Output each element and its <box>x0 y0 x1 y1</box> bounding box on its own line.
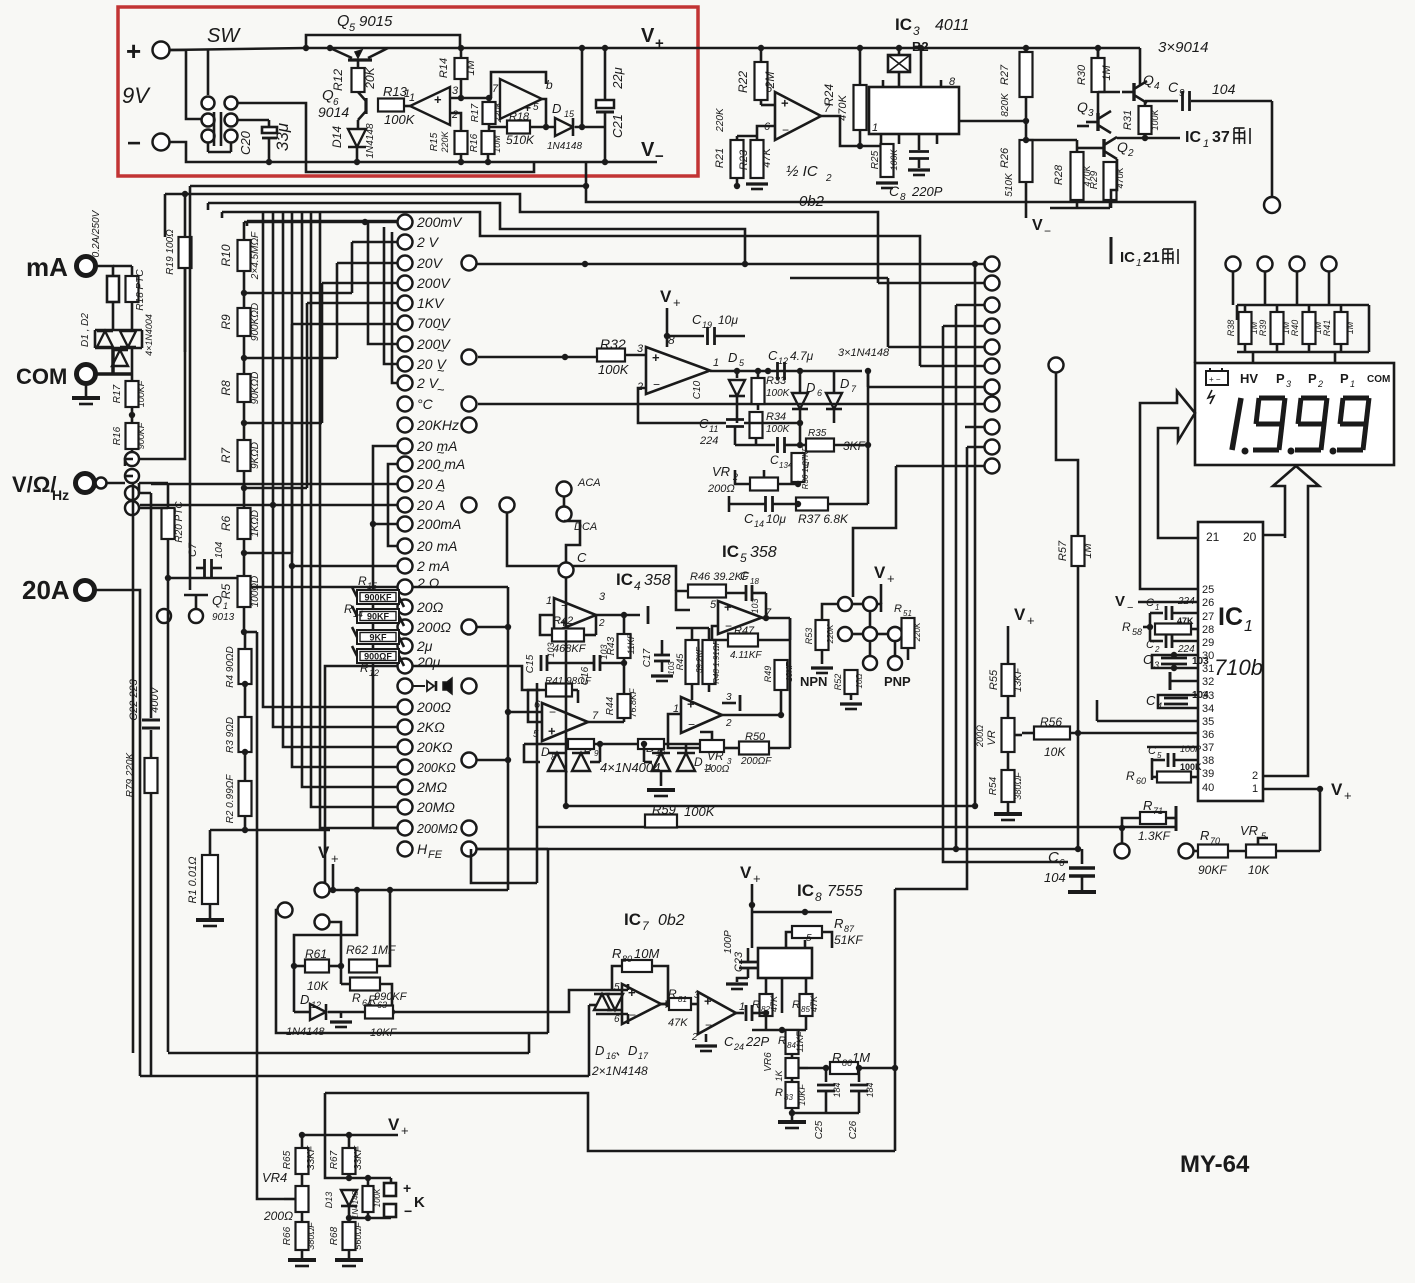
svg-text:380ΩF: 380ΩF <box>1013 772 1023 800</box>
svg-text:V: V <box>740 863 752 882</box>
svg-text:+: + <box>687 697 695 712</box>
svg-text:47K: 47K <box>809 995 819 1012</box>
svg-text:R: R <box>344 602 353 616</box>
svg-text:10KF: 10KF <box>370 1027 398 1039</box>
svg-text:11KF: 11KF <box>795 1031 805 1052</box>
svg-text:20MΩ: 20MΩ <box>416 799 455 815</box>
svg-text:R1 0.01Ω: R1 0.01Ω <box>187 857 199 904</box>
svg-text:9: 9 <box>1179 88 1185 99</box>
svg-text:R32: R32 <box>600 336 626 352</box>
svg-text:220K: 220K <box>440 130 450 153</box>
svg-text:58: 58 <box>1132 627 1142 637</box>
svg-text:11: 11 <box>709 424 718 434</box>
svg-text:R15: R15 <box>429 132 440 151</box>
svg-text:20 A: 20 A <box>416 497 445 513</box>
svg-text:3×9014: 3×9014 <box>1158 39 1208 56</box>
svg-text:IC: IC <box>895 15 912 34</box>
svg-text:D: D <box>541 745 550 759</box>
svg-text:510K: 510K <box>1004 172 1015 197</box>
svg-text:R16: R16 <box>469 133 480 152</box>
svg-text:83: 83 <box>784 1093 793 1102</box>
svg-text:C20: C20 <box>238 130 253 155</box>
svg-text:IC: IC <box>1120 249 1135 266</box>
svg-text:200ΩF: 200ΩF <box>740 756 772 767</box>
svg-text:220K: 220K <box>826 624 835 644</box>
svg-text:R14: R14 <box>438 58 450 78</box>
svg-text:2: 2 <box>1317 379 1323 389</box>
svg-text:224: 224 <box>1177 596 1195 607</box>
svg-text:32: 32 <box>1202 676 1214 688</box>
svg-text:9KF: 9KF <box>369 633 387 643</box>
svg-text:VR4: VR4 <box>262 1170 287 1185</box>
svg-text:−: − <box>1127 602 1133 614</box>
svg-text:V: V <box>874 563 886 582</box>
svg-text:200Ω: 200Ω <box>263 1209 293 1223</box>
svg-text:~: ~ <box>437 322 445 337</box>
svg-text:R41 98ΩF: R41 98ΩF <box>545 676 592 687</box>
svg-text:51: 51 <box>903 609 912 618</box>
svg-text:IC: IC <box>1218 603 1243 631</box>
svg-text:200Ω: 200Ω <box>704 764 730 775</box>
svg-text:−: − <box>404 1203 412 1219</box>
svg-text:380ΩF: 380ΩF <box>306 1222 316 1250</box>
svg-text:37: 37 <box>1202 742 1214 754</box>
svg-text:R42: R42 <box>553 615 573 627</box>
svg-text:+: + <box>548 724 556 739</box>
svg-text:R41: R41 <box>1322 320 1332 337</box>
svg-text:8: 8 <box>949 76 956 88</box>
svg-text:35: 35 <box>1202 716 1214 728</box>
svg-text:V/Ω/: V/Ω/ <box>12 472 57 497</box>
svg-text:R48 1.91ΩF: R48 1.91ΩF <box>712 639 721 684</box>
svg-text:224: 224 <box>1177 644 1195 655</box>
svg-text:1KV: 1KV <box>417 295 445 311</box>
svg-text:2: 2 <box>598 618 605 629</box>
svg-text:103: 103 <box>667 661 676 675</box>
svg-text:2: 2 <box>1127 148 1134 159</box>
svg-text:R: R <box>1122 620 1131 634</box>
svg-text:2MΩ: 2MΩ <box>416 779 447 795</box>
svg-text:~: ~ <box>437 363 445 378</box>
svg-text:1M: 1M <box>1345 321 1355 334</box>
svg-text:−: − <box>653 377 660 391</box>
svg-text:200Ω: 200Ω <box>975 725 985 748</box>
svg-text:2μ: 2μ <box>416 638 433 654</box>
svg-text:H: H <box>417 841 428 857</box>
svg-text:R30: R30 <box>1076 64 1088 85</box>
svg-text:184: 184 <box>832 1082 842 1097</box>
svg-text:V: V <box>1115 593 1125 610</box>
svg-text:20A: 20A <box>22 575 70 605</box>
svg-text:200KΩ: 200KΩ <box>416 761 456 775</box>
svg-text:19: 19 <box>702 320 712 330</box>
svg-text:D: D <box>806 380 815 395</box>
svg-text:2×4.5MΩF: 2×4.5MΩF <box>250 231 261 280</box>
svg-text:C: C <box>1143 652 1153 667</box>
svg-text:710b: 710b <box>1214 655 1263 680</box>
svg-text:R27: R27 <box>999 64 1011 85</box>
svg-text:R: R <box>832 1050 841 1065</box>
svg-text:HV: HV <box>1240 371 1258 386</box>
svg-text:39: 39 <box>1202 768 1214 780</box>
svg-text:D: D <box>728 350 737 365</box>
svg-text:+: + <box>1027 613 1035 628</box>
svg-text:10μ: 10μ <box>718 313 738 327</box>
svg-text:22P: 22P <box>745 1034 769 1049</box>
svg-text:C: C <box>1146 693 1156 708</box>
svg-text:VR: VR <box>986 730 998 745</box>
svg-text:25: 25 <box>1202 584 1214 596</box>
svg-text:1N4148: 1N4148 <box>286 1026 325 1038</box>
svg-text:IC: IC <box>722 542 739 561</box>
svg-text:4011: 4011 <box>935 17 969 34</box>
svg-text:3: 3 <box>726 692 732 703</box>
svg-text:468KF: 468KF <box>553 643 587 655</box>
svg-text:R28: R28 <box>1053 164 1065 185</box>
svg-text:470K: 470K <box>837 94 849 120</box>
svg-text:47K: 47K <box>1177 616 1194 626</box>
svg-text:2: 2 <box>1252 770 1258 782</box>
svg-text:4: 4 <box>1154 81 1160 92</box>
svg-text:R5: R5 <box>219 584 233 600</box>
svg-text:9013: 9013 <box>212 612 235 623</box>
svg-text:+: + <box>655 35 664 52</box>
svg-text:1M: 1M <box>465 60 477 76</box>
svg-text:220P: 220P <box>911 184 943 199</box>
svg-text:1: 1 <box>1155 603 1159 612</box>
svg-text:104: 104 <box>1212 81 1236 97</box>
svg-text:1M: 1M <box>852 1050 870 1065</box>
svg-text:1.3KF: 1.3KF <box>1138 829 1171 843</box>
svg-text:R44: R44 <box>605 696 616 715</box>
svg-text:3KF: 3KF <box>843 439 866 453</box>
svg-text:22μ: 22μ <box>610 67 625 90</box>
svg-text:+: + <box>403 1180 411 1196</box>
svg-text:3: 3 <box>452 85 459 97</box>
svg-text:、D: 、D <box>615 1043 637 1058</box>
svg-text:29: 29 <box>1202 637 1214 649</box>
svg-text:2 Ω: 2 Ω <box>416 575 440 591</box>
svg-text:0.2A/250V: 0.2A/250V <box>91 209 102 257</box>
svg-text:+: + <box>434 92 442 107</box>
svg-text:R65: R65 <box>282 1150 293 1169</box>
svg-text:1N4148: 1N4148 <box>547 141 582 152</box>
svg-text:20: 20 <box>1243 530 1257 544</box>
svg-text:R61: R61 <box>305 947 327 961</box>
svg-text:VR6: VR6 <box>763 1052 774 1072</box>
svg-text:15: 15 <box>367 581 378 591</box>
svg-text:R18: R18 <box>509 111 530 123</box>
svg-text:C: C <box>724 1034 734 1049</box>
svg-text:26: 26 <box>1202 597 1214 609</box>
svg-text:200MΩ: 200MΩ <box>416 822 458 836</box>
svg-text:10Ω: 10Ω <box>855 674 864 689</box>
svg-text:R23: R23 <box>738 149 750 170</box>
svg-text:IC: IC <box>624 910 641 929</box>
svg-text:3: 3 <box>1286 379 1291 389</box>
svg-text:1: 1 <box>872 122 878 134</box>
svg-text:14: 14 <box>353 609 363 619</box>
svg-text:28: 28 <box>1202 624 1214 636</box>
svg-text:R62 1MF: R62 1MF <box>346 943 396 957</box>
svg-text:−: − <box>725 619 732 633</box>
svg-text:104: 104 <box>214 541 225 558</box>
svg-text:R79 220K: R79 220K <box>125 751 136 797</box>
svg-text:12: 12 <box>369 668 379 678</box>
svg-text:37: 37 <box>1212 129 1230 146</box>
svg-text:5: 5 <box>766 83 773 95</box>
svg-text:C: C <box>1146 597 1154 609</box>
svg-text:20KHz: 20KHz <box>416 417 459 433</box>
svg-text:560ΩF: 560ΩF <box>353 1222 363 1250</box>
svg-text:R35: R35 <box>808 428 827 439</box>
svg-text:R24: R24 <box>822 84 836 106</box>
svg-text:+: + <box>1344 788 1352 803</box>
svg-text:R45: R45 <box>675 653 685 671</box>
svg-text:90KΩD: 90KΩD <box>250 372 261 405</box>
svg-text:100K: 100K <box>1180 762 1202 772</box>
svg-text:90KF: 90KF <box>1198 863 1227 877</box>
svg-text:103: 103 <box>546 642 556 657</box>
svg-text:70: 70 <box>1210 836 1220 846</box>
svg-text:R: R <box>778 1035 786 1047</box>
svg-text:Q: Q <box>337 13 349 30</box>
svg-text:R52: R52 <box>833 674 843 691</box>
svg-text:21: 21 <box>1206 530 1220 544</box>
svg-text:0b2: 0b2 <box>658 912 685 929</box>
svg-text:20 mA: 20 mA <box>416 538 457 554</box>
svg-text:C: C <box>740 569 749 583</box>
svg-text:~: ~ <box>437 382 445 397</box>
svg-text:5: 5 <box>806 933 812 944</box>
svg-text:9014: 9014 <box>318 104 349 120</box>
svg-text:100K: 100K <box>766 424 791 435</box>
svg-text:5: 5 <box>1157 751 1162 760</box>
svg-text:51KF: 51KF <box>834 933 863 947</box>
svg-text:R19 100Ω: R19 100Ω <box>165 229 176 275</box>
svg-text:2 mA: 2 mA <box>416 558 450 574</box>
svg-text:+: + <box>724 600 732 615</box>
svg-text:1M: 1M <box>1101 65 1113 81</box>
svg-text:900KΩD: 900KΩD <box>250 303 261 341</box>
svg-text:R4 90ΩD: R4 90ΩD <box>225 646 236 688</box>
svg-text:4.7μ: 4.7μ <box>790 349 814 363</box>
svg-text:9015: 9015 <box>359 13 393 30</box>
svg-text:C: C <box>1146 639 1154 651</box>
svg-text:200Ω: 200Ω <box>416 619 451 635</box>
svg-text:3: 3 <box>913 24 920 38</box>
svg-text:5: 5 <box>740 551 747 565</box>
svg-text:200mV: 200mV <box>416 214 463 230</box>
svg-text:200Ω: 200Ω <box>707 483 735 495</box>
svg-text:+: + <box>126 36 141 66</box>
svg-text:200Ω: 200Ω <box>416 699 451 715</box>
svg-text:V: V <box>388 1115 400 1134</box>
svg-text:+ −: + − <box>1209 375 1221 384</box>
svg-text:R17: R17 <box>470 103 481 122</box>
svg-text:5: 5 <box>710 599 717 611</box>
svg-text:33KF: 33KF <box>306 1145 317 1170</box>
svg-text:11KF: 11KF <box>626 633 636 654</box>
svg-text:3: 3 <box>1154 660 1159 670</box>
svg-text:358: 358 <box>644 572 671 589</box>
svg-text:5: 5 <box>614 982 620 993</box>
svg-text:8: 8 <box>815 890 822 904</box>
svg-text:200V: 200V <box>416 275 451 291</box>
svg-text:6: 6 <box>1059 858 1065 869</box>
svg-text:100ΩD: 100ΩD <box>250 576 261 608</box>
svg-text:220K: 220K <box>715 107 726 133</box>
svg-text:−: − <box>629 1008 636 1022</box>
svg-text:224: 224 <box>699 435 718 447</box>
svg-text:R67: R67 <box>329 1150 340 1169</box>
svg-text:−: − <box>127 130 141 157</box>
svg-text:V: V <box>660 287 672 306</box>
svg-text:V: V <box>1032 217 1043 234</box>
svg-text:6: 6 <box>614 1014 620 1025</box>
svg-text:SW: SW <box>207 25 241 47</box>
svg-text:C: C <box>744 511 754 526</box>
svg-text:10K: 10K <box>1248 863 1270 877</box>
svg-text:R: R <box>612 946 621 961</box>
svg-text:R: R <box>834 916 843 931</box>
svg-text:9KΩD: 9KΩD <box>250 442 261 469</box>
svg-text:R10: R10 <box>219 244 233 266</box>
svg-text:C: C <box>1048 849 1059 866</box>
svg-text:27: 27 <box>1202 611 1214 623</box>
svg-text:+: + <box>704 993 712 1008</box>
svg-text:−: − <box>705 1018 712 1032</box>
svg-text:15: 15 <box>564 109 575 119</box>
svg-text:200V: 200V <box>416 336 451 352</box>
svg-text:Q: Q <box>1077 99 1088 115</box>
svg-text:IC: IC <box>616 570 633 589</box>
svg-text:R7: R7 <box>219 447 233 464</box>
svg-text:40: 40 <box>1202 782 1214 794</box>
svg-text:COM: COM <box>1367 374 1390 385</box>
svg-text:Q: Q <box>1117 139 1128 155</box>
svg-text:+: + <box>887 571 895 586</box>
svg-text:3: 3 <box>599 591 606 603</box>
svg-text:2: 2 <box>825 173 832 184</box>
svg-text:R26: R26 <box>999 147 1011 168</box>
svg-text:7555: 7555 <box>827 883 863 900</box>
svg-text:R3 9ΩD: R3 9ΩD <box>225 717 236 753</box>
svg-text:20μ: 20μ <box>416 654 441 670</box>
svg-text:5: 5 <box>533 102 539 113</box>
svg-text:7: 7 <box>592 710 599 722</box>
svg-text:C: C <box>1168 79 1179 95</box>
svg-text:24: 24 <box>733 1042 744 1052</box>
svg-text:4: 4 <box>1157 701 1162 711</box>
svg-text:P: P <box>1276 371 1285 386</box>
svg-text:184: 184 <box>865 1082 875 1097</box>
svg-text:90KF: 90KF <box>367 612 390 622</box>
svg-text:2: 2 <box>725 718 732 729</box>
svg-text:V: V <box>318 843 330 862</box>
svg-text:+: + <box>673 295 681 310</box>
svg-text:C: C <box>1148 745 1156 757</box>
svg-text:+: + <box>331 851 339 866</box>
svg-text:D13: D13 <box>324 1192 334 1209</box>
svg-text:12: 12 <box>311 1000 321 1010</box>
svg-text:100K: 100K <box>373 1188 382 1207</box>
svg-text:220K: 220K <box>493 100 503 123</box>
svg-text:9: 9 <box>594 749 599 758</box>
svg-text:R: R <box>775 1087 783 1099</box>
svg-text:86: 86 <box>842 1058 852 1068</box>
svg-text:2KΩ: 2KΩ <box>416 719 445 735</box>
svg-text:R: R <box>358 574 367 588</box>
svg-text:V: V <box>1331 780 1343 799</box>
svg-text:R47: R47 <box>734 625 755 637</box>
svg-text:Hz: Hz <box>52 487 69 503</box>
svg-text:100P: 100P <box>723 930 734 954</box>
svg-text:104: 104 <box>1044 870 1066 885</box>
svg-text:+: + <box>753 871 761 886</box>
svg-text:17: 17 <box>638 1051 649 1061</box>
svg-text:60: 60 <box>1136 776 1146 786</box>
svg-text:−: − <box>549 705 556 719</box>
svg-text:C: C <box>770 453 779 467</box>
svg-text:100K: 100K <box>766 388 791 399</box>
svg-text:13KF: 13KF <box>1013 667 1024 692</box>
svg-text:5: 5 <box>349 22 356 34</box>
svg-text:C26: C26 <box>848 1120 859 1139</box>
svg-text:4.11KF: 4.11KF <box>730 650 762 661</box>
svg-text:R16: R16 <box>112 426 123 445</box>
svg-text:R56: R56 <box>1040 715 1062 729</box>
svg-text:C15: C15 <box>525 654 536 673</box>
svg-text:510K: 510K <box>506 133 535 147</box>
svg-text:47K: 47K <box>668 1017 688 1029</box>
svg-text:100K: 100K <box>889 148 899 170</box>
svg-text:80: 80 <box>622 954 632 964</box>
svg-text:2×1N4148: 2×1N4148 <box>591 1064 648 1078</box>
svg-text:R: R <box>368 993 377 1007</box>
svg-text:1K: 1K <box>774 1070 784 1082</box>
svg-text:100K: 100K <box>598 362 630 377</box>
svg-text:8: 8 <box>551 753 556 762</box>
svg-text:2: 2 <box>691 1032 698 1043</box>
svg-text:20V: 20V <box>416 255 444 271</box>
svg-text:R66: R66 <box>282 1226 293 1245</box>
svg-text:R59: R59 <box>652 802 676 817</box>
svg-text:10K: 10K <box>1044 745 1066 759</box>
svg-text:R25: R25 <box>870 150 881 169</box>
svg-text:R37 6.8K: R37 6.8K <box>798 512 849 526</box>
svg-text:R68: R68 <box>329 1226 340 1245</box>
svg-text:4: 4 <box>634 579 641 593</box>
svg-text:D: D <box>840 376 849 391</box>
svg-text:100K: 100K <box>384 112 416 127</box>
svg-text:R39: R39 <box>1258 320 1268 337</box>
svg-text:6: 6 <box>817 388 822 398</box>
svg-text:R29: R29 <box>1089 170 1100 189</box>
svg-text:100K: 100K <box>1150 108 1160 130</box>
svg-text:°C: °C <box>417 396 434 412</box>
svg-text:P: P <box>1308 371 1317 386</box>
svg-text:36: 36 <box>1202 729 1214 741</box>
svg-text:10K: 10K <box>307 979 329 993</box>
svg-text:MY-64: MY-64 <box>1180 1151 1250 1178</box>
svg-text:R: R <box>360 661 369 675</box>
svg-text:38: 38 <box>1202 755 1214 767</box>
svg-text:100KF: 100KF <box>136 380 146 407</box>
svg-text:20K: 20K <box>363 66 377 89</box>
svg-text:63: 63 <box>377 1000 387 1010</box>
svg-text:47K: 47K <box>769 995 779 1012</box>
